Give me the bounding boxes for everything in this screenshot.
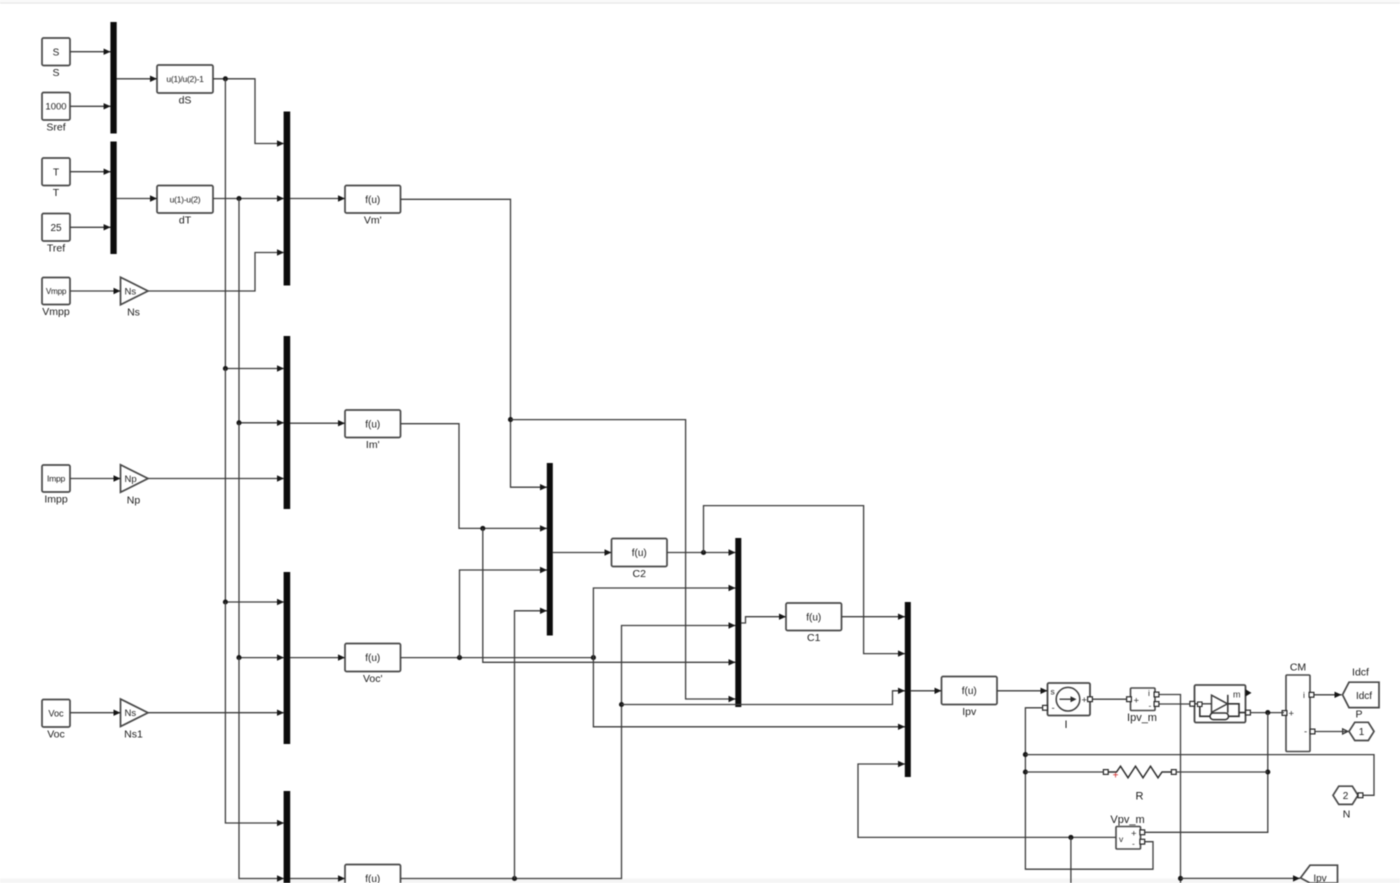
- svg-text:+: +: [1289, 709, 1295, 720]
- constant block Vmpp: [42, 278, 70, 319]
- svg-text:u(1)/u(2)-1: u(1)/u(2)-1: [166, 74, 204, 84]
- wire I- rail down to Vpv_m minus: [1023, 708, 1153, 869]
- wire gain Ns to mux M3 input 3: [148, 249, 284, 291]
- svg-text:f(u): f(u): [365, 874, 380, 883]
- wire Voc to gain Ns1: [70, 710, 121, 716]
- constant block Voc: [42, 700, 70, 741]
- wire diode node down to Vpv_m plus: [1145, 713, 1270, 833]
- mux M5: [284, 572, 291, 744]
- svg-text:Voc: Voc: [47, 729, 65, 741]
- mux M2 (T,Tref): [110, 142, 116, 255]
- svg-text:Np: Np: [127, 494, 141, 506]
- wire dT branch down to mux M4 input 2: [236, 199, 284, 427]
- wire gain Ns1 to mux M5 input 3: [148, 710, 284, 716]
- wire I+ to Ipv_m: [1093, 698, 1127, 700]
- svg-text:Ipv_m: Ipv_m: [1127, 712, 1157, 724]
- wire bottom fcn branch to mux M7 input 4: [515, 608, 548, 879]
- svg-text:i: i: [1303, 690, 1305, 700]
- svg-text:I: I: [1064, 719, 1067, 731]
- mux M7: [547, 463, 553, 636]
- svg-text:i: i: [1148, 688, 1150, 698]
- svg-text:Vmpp: Vmpp: [42, 306, 70, 318]
- wire dS to mux M3 with branch node: [213, 76, 284, 146]
- wire bottom fcn output to mux M8 input 3: [401, 622, 736, 881]
- svg-text:Voc': Voc': [363, 673, 383, 685]
- wire mux M3 to Vm fcn: [290, 195, 345, 201]
- diode block: [1190, 685, 1252, 723]
- svg-text:u(1)-u(2): u(1)-u(2): [170, 194, 201, 204]
- window bottom edge strip: [0, 879, 1400, 883]
- wire resistor right to diode rail: [1176, 771, 1268, 773]
- wire dT to mux M3: [213, 195, 284, 201]
- wire Voc' output trunk: [401, 655, 596, 660]
- svg-text:dS: dS: [179, 95, 192, 107]
- goto tag Idcf: [1343, 667, 1380, 708]
- gain block Ns1: [121, 699, 149, 741]
- svg-text:s: s: [1051, 687, 1055, 697]
- wire mux M1 to dS: [117, 76, 158, 82]
- wire dS branch down to mux M6 input 1: [225, 602, 284, 826]
- svg-text:R: R: [1136, 791, 1144, 803]
- output port 2 (N): [1333, 786, 1363, 820]
- svg-text:-: -: [1132, 839, 1135, 849]
- wire dT branch down to mux M6 input 2: [239, 658, 284, 882]
- svg-text:P: P: [1355, 709, 1362, 721]
- wire dT branch down to mux M5 input 2: [236, 423, 284, 661]
- wire Ipv_m i down the right rail: [1159, 695, 1183, 883]
- controlled current source I: [1043, 683, 1093, 731]
- svg-text:+: +: [1134, 696, 1140, 707]
- wire dS branch down to mux M5 input 1: [223, 369, 284, 606]
- svg-text:Ns1: Ns1: [124, 729, 143, 741]
- svg-text:Vpv_m: Vpv_m: [1110, 814, 1144, 826]
- wire Vm' output to mux M7 input 1: [401, 199, 548, 490]
- mux M9: [905, 602, 911, 777]
- wire C1 to mux M9 input 1: [842, 614, 906, 620]
- mux M4: [284, 336, 291, 509]
- svg-text:Idcf: Idcf: [1352, 667, 1369, 679]
- svg-text:-: -: [1149, 701, 1152, 711]
- wire mux M5 to Voc fcn: [290, 654, 345, 660]
- mux M1 (S,Sref): [110, 22, 116, 134]
- svg-text:Voc: Voc: [48, 708, 64, 718]
- svg-text:T: T: [53, 187, 60, 199]
- wire T to mux M2: [70, 169, 111, 175]
- wire mux M8 to C1: [741, 614, 786, 624]
- output port 1 (P): [1343, 709, 1374, 741]
- svg-text:-: -: [1304, 727, 1307, 738]
- wire bottom fcn branch to mux M9 input 3: [622, 688, 906, 705]
- wire C2 branch to mux M9 input 2: [704, 506, 906, 657]
- wire mux M2 to dT: [117, 195, 158, 201]
- svg-text:Tref: Tref: [47, 243, 65, 255]
- svg-text:-: -: [1052, 703, 1055, 714]
- resistor R: [1103, 766, 1176, 802]
- wire Vmpp to gain Ns: [70, 288, 121, 294]
- wire mux M9 to Ipv fcn: [911, 688, 942, 694]
- svg-text:T: T: [53, 167, 59, 178]
- svg-text:Ns: Ns: [127, 307, 140, 319]
- wire Voc' branch up to mux M7 input 3: [460, 567, 548, 658]
- svg-text:Impp: Impp: [44, 494, 68, 506]
- svg-text:CM: CM: [1290, 662, 1306, 674]
- mux M3: [284, 112, 291, 286]
- svg-text:S: S: [53, 47, 60, 58]
- wire N rail to port 2: [1025, 755, 1374, 796]
- wire rail to resistor left: [1025, 771, 1103, 773]
- wire mux M7 to C2: [553, 549, 612, 555]
- wire mux M6 to bottom fcn: [290, 875, 345, 881]
- svg-text:Idcf: Idcf: [1356, 691, 1372, 702]
- svg-text:+: +: [1113, 771, 1119, 782]
- wire S to mux M1: [70, 49, 111, 55]
- voltage sensor Vpv_m: [1110, 814, 1144, 849]
- wire Voc' branch up to mux M8 input 2: [593, 585, 735, 658]
- current measurement CM: [1282, 662, 1315, 752]
- constant block Impp: [42, 465, 70, 506]
- Fcn block Im': [345, 410, 401, 451]
- wire mux M4 to Im fcn: [290, 420, 345, 426]
- Fcn block Vm': [345, 186, 401, 227]
- gain block Ns: [121, 277, 149, 319]
- wire Ipv fcn to current source s input: [997, 688, 1048, 694]
- mux M6: [284, 791, 291, 883]
- wire dS branch down to mux M4 input 1: [223, 79, 284, 372]
- constant block T: [42, 158, 70, 199]
- svg-text:f(u): f(u): [365, 195, 380, 206]
- svg-text:f(u): f(u): [365, 653, 380, 664]
- svg-text:Vmpp: Vmpp: [46, 287, 67, 296]
- svg-text:Ipv: Ipv: [1313, 874, 1326, 883]
- svg-text:Ipv: Ipv: [962, 706, 977, 718]
- Fcn block Voc': [345, 644, 401, 686]
- wire gain Np to mux M4 input 3: [148, 475, 284, 481]
- current sensor Ipv_m: [1127, 688, 1159, 724]
- wire CM minus to port 1: [1315, 731, 1348, 733]
- svg-text:1: 1: [1359, 727, 1365, 738]
- wire diode output to CM plus: [1251, 710, 1285, 715]
- svg-text:C1: C1: [807, 632, 821, 644]
- wire Vm' branch to mux M8 input 5: [511, 420, 736, 703]
- svg-text:Np: Np: [125, 474, 137, 485]
- wire C2 to mux M8 input 1: [667, 549, 736, 555]
- expression block dT: [157, 186, 213, 227]
- svg-text:Vm': Vm': [364, 215, 382, 227]
- wire Voc' branch down to mux M9 input 4: [593, 658, 905, 730]
- svg-text:25: 25: [50, 223, 62, 234]
- wire to goto tag Ipv: [1181, 875, 1301, 881]
- svg-text:Ns: Ns: [125, 286, 137, 297]
- wire Ipv_m minus to diode: [1159, 703, 1190, 705]
- svg-text:Im': Im': [366, 439, 380, 451]
- svg-text:f(u): f(u): [806, 612, 821, 623]
- constant block Sref (1000): [42, 93, 70, 134]
- wire Sref to mux M1: [70, 103, 111, 109]
- constant block Tref (25): [42, 214, 70, 255]
- svg-text:Impp: Impp: [47, 474, 65, 484]
- constant block S: [42, 38, 70, 79]
- svg-text:f(u): f(u): [962, 686, 977, 697]
- svg-text:+: +: [1082, 695, 1088, 706]
- svg-text:C2: C2: [633, 568, 647, 580]
- wire Tref to mux M2: [70, 224, 111, 230]
- expression block dS: [157, 65, 213, 107]
- Fcn block C2: [612, 539, 668, 581]
- svg-text:2: 2: [1343, 791, 1349, 802]
- gain block Np: [121, 465, 149, 507]
- wire Impp to gain Np: [70, 475, 121, 481]
- svg-text:dT: dT: [179, 215, 192, 227]
- svg-text:f(u): f(u): [365, 419, 380, 430]
- wire CM i to tag Idcf: [1314, 692, 1342, 698]
- Fcn block at bottom (cut off): [345, 865, 401, 883]
- svg-text:S: S: [52, 67, 59, 79]
- goto tag Ipv (bottom right, cut off): [1301, 865, 1338, 883]
- window top edge strip: [0, 0, 1400, 3]
- wire Im' branch to mux M8 input 4: [483, 528, 736, 665]
- wire Vpv_m v to mux M9 input 5: [858, 761, 1116, 840]
- svg-text:Ns: Ns: [125, 708, 137, 719]
- wire Vpv_m v branch down off page: [1070, 837, 1072, 883]
- Fcn block Ipv: [942, 677, 998, 719]
- wire Im' output to mux M7 input 2: [401, 424, 548, 532]
- mux M8: [735, 538, 741, 707]
- svg-text:f(u): f(u): [632, 548, 647, 559]
- svg-text:Sref: Sref: [46, 122, 65, 134]
- svg-text:N: N: [1343, 809, 1351, 821]
- Fcn block C1: [786, 603, 842, 644]
- svg-text:m: m: [1233, 690, 1241, 700]
- svg-text:1000: 1000: [45, 102, 66, 113]
